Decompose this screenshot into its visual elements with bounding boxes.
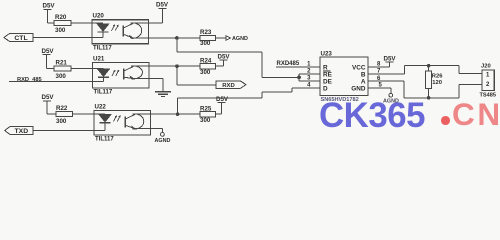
svg-text:D: D xyxy=(323,85,328,92)
svg-text:RXD: RXD xyxy=(222,83,234,89)
svg-text:R23: R23 xyxy=(200,29,212,36)
svg-text:D5V: D5V xyxy=(42,48,55,55)
svg-text:A: A xyxy=(361,78,366,85)
svg-text:300: 300 xyxy=(55,27,66,34)
svg-text:GND: GND xyxy=(351,85,366,92)
svg-text:TIL117: TIL117 xyxy=(94,90,113,96)
svg-text:RXD_485: RXD_485 xyxy=(17,77,42,83)
svg-text:TXD: TXD xyxy=(15,128,29,135)
svg-text:1: 1 xyxy=(486,73,490,79)
svg-text:1: 1 xyxy=(307,61,311,67)
svg-text:300: 300 xyxy=(56,73,67,80)
svg-text:R21: R21 xyxy=(56,59,68,66)
svg-text:RXD485: RXD485 xyxy=(277,61,300,67)
svg-text:J20: J20 xyxy=(481,64,491,70)
svg-text:U20: U20 xyxy=(93,13,105,20)
svg-text:DE: DE xyxy=(323,78,333,85)
svg-text:D5V: D5V xyxy=(384,56,397,63)
svg-text:D5V: D5V xyxy=(42,94,55,101)
svg-text:2: 2 xyxy=(307,68,311,74)
svg-text:TIL117: TIL117 xyxy=(95,137,114,143)
svg-text:R24: R24 xyxy=(200,57,212,64)
svg-text:VCC: VCC xyxy=(352,64,366,71)
svg-text:D5V: D5V xyxy=(43,3,56,10)
svg-text:300: 300 xyxy=(200,69,211,76)
svg-text:U21: U21 xyxy=(93,56,105,63)
svg-text:4: 4 xyxy=(307,82,311,88)
svg-text:CTL: CTL xyxy=(14,35,27,42)
svg-text:AGND: AGND xyxy=(155,138,171,144)
svg-text:3: 3 xyxy=(307,75,311,81)
svg-text:2: 2 xyxy=(486,82,490,88)
svg-text:R26: R26 xyxy=(432,73,443,79)
svg-text:8: 8 xyxy=(377,61,381,67)
svg-text:R20: R20 xyxy=(55,14,67,21)
svg-text:RE: RE xyxy=(323,71,333,78)
svg-text:300: 300 xyxy=(56,118,67,125)
svg-text:AGND: AGND xyxy=(232,36,248,42)
svg-text:R25: R25 xyxy=(200,105,212,112)
svg-text:D5V: D5V xyxy=(156,2,169,9)
svg-text:300: 300 xyxy=(200,40,211,47)
svg-text:R: R xyxy=(323,64,328,71)
svg-text:U23: U23 xyxy=(321,51,333,58)
svg-text:300: 300 xyxy=(200,117,211,124)
svg-text:U22: U22 xyxy=(95,103,107,110)
svg-text:B: B xyxy=(361,71,366,78)
svg-text:TIL117: TIL117 xyxy=(93,46,112,52)
svg-text:120: 120 xyxy=(432,80,442,86)
svg-text:R22: R22 xyxy=(56,105,68,112)
